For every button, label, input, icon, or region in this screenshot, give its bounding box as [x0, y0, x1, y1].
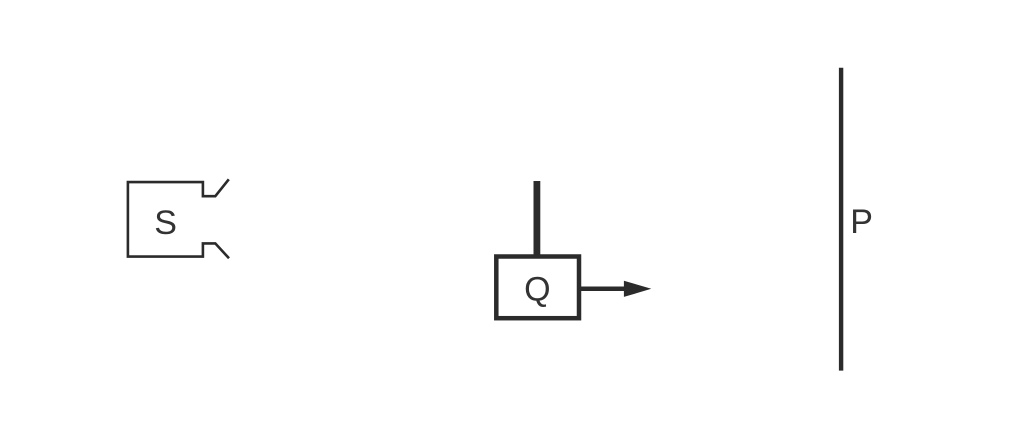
- svg-text:S: S: [154, 204, 177, 242]
- box Q: [496, 257, 579, 319]
- arrow head: [624, 281, 651, 297]
- rod above box Q: [534, 181, 541, 258]
- svg-text:P: P: [850, 203, 873, 241]
- plate P (vertical line): [839, 68, 843, 371]
- arrow shaft: [579, 287, 628, 292]
- svg-text:Q: Q: [524, 270, 550, 308]
- source S (loudspeaker outline): [128, 179, 229, 258]
